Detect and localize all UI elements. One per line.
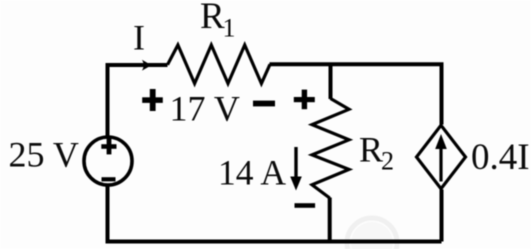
voltage source V1 circle — [84, 137, 132, 185]
plus sign R2 top — [294, 90, 315, 110]
wire middle branch bottom — [328, 198, 332, 242]
svg-text:R: R — [200, 0, 225, 37]
arrow 14A down — [294, 147, 297, 178]
wire top-right segment with corner to diamond — [270, 64, 442, 124]
minus sign R2 bottom — [295, 203, 316, 208]
resistor R2 — [312, 99, 349, 199]
svg-text:25 V: 25 V — [9, 135, 79, 175]
dependent source diamond — [417, 125, 466, 188]
minus sign inside source — [102, 177, 116, 181]
plus sign 17V — [142, 89, 163, 111]
current arrow I — [142, 60, 152, 71]
wire bottom — [106, 240, 442, 244]
wire top-left segment with corner — [108, 65, 168, 137]
wire left-bottom segment — [106, 185, 110, 242]
wire right-bottom segment — [440, 190, 444, 242]
svg-text:I: I — [133, 18, 145, 58]
svg-text:17 V: 17 V — [170, 89, 240, 129]
dependent source arrow — [439, 146, 442, 182]
svg-text:14 A: 14 A — [218, 153, 286, 193]
plus sign inside source — [101, 138, 116, 154]
svg-text:2: 2 — [381, 147, 394, 176]
svg-text:R: R — [359, 130, 383, 170]
svg-text:0.4I: 0.4I — [471, 137, 530, 178]
resistor R1 — [168, 45, 271, 84]
watermark — [347, 218, 397, 249]
svg-text:1: 1 — [223, 14, 236, 43]
wire middle branch top — [329, 65, 333, 99]
minus sign 17V — [253, 101, 275, 107]
